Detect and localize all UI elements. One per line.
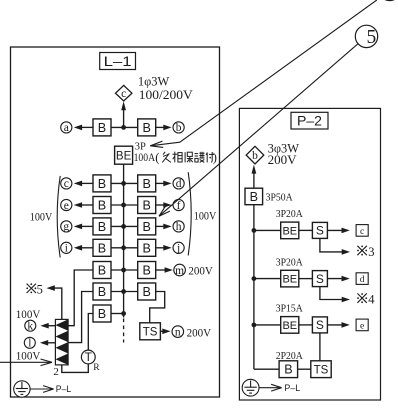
wire B-TS (298, 368, 311, 370)
earth arrow to P-L (P-2) (259, 387, 281, 389)
svg-text:TS: TS (143, 326, 158, 338)
svg-text:): ) (213, 151, 217, 165)
note ※3 (357, 246, 366, 255)
remote-control transformer T(R) (81, 350, 95, 364)
circuit k (25, 320, 36, 331)
arrow to circuit g (80, 225, 93, 227)
svg-text:100/200V: 100/200V (139, 87, 194, 102)
wire branch c (254, 229, 281, 231)
kanji 相 (174, 152, 176, 163)
breaker B row7-right (138, 283, 156, 300)
relay triangle 4 (55, 354, 68, 365)
wire BE-S (299, 229, 313, 231)
circuit j (173, 242, 184, 253)
leader line from 5 to branch breaker (159, 44, 358, 217)
branch wire to note 4 (320, 287, 346, 300)
svg-text:200V: 200V (187, 325, 212, 339)
relay triangle 1 (55, 319, 68, 330)
svg-text:B: B (142, 121, 150, 135)
source diamond c (1φ3W 100/200V feeder) (116, 85, 132, 101)
source diamond b (3φ3W 200V feeder) (246, 146, 264, 164)
junction row1 (121, 125, 126, 130)
wire BE-S (299, 324, 313, 326)
svg-text:3P20A: 3P20A (276, 256, 303, 268)
svg-text:B: B (98, 121, 106, 135)
svg-text:BE: BE (116, 150, 132, 162)
breaker B right of h row (138, 218, 156, 235)
wire row ij (111, 247, 138, 249)
left group bracket (57, 176, 60, 258)
earth arrow to P-L (30, 388, 52, 390)
svg-text:f: f (177, 200, 181, 212)
svg-text:n: n (175, 326, 181, 338)
svg-text:B: B (142, 285, 150, 299)
arrow to circuit e (80, 204, 93, 206)
outlet box d (356, 273, 368, 285)
svg-text:100V: 100V (194, 208, 217, 222)
breaker B row7-left (93, 283, 111, 300)
circuit l (24, 337, 35, 348)
panel label L-1 (100, 53, 136, 70)
arrow to circuit m (156, 269, 167, 271)
wire row6-left down to relay bank (68, 270, 93, 326)
wire row8-left down through transformer (88, 314, 93, 351)
svg-text:B: B (284, 363, 292, 377)
svg-text:T: T (85, 350, 93, 364)
circuit n (172, 326, 184, 338)
main bus (P-2) (253, 205, 255, 370)
svg-text:b: b (176, 122, 182, 134)
svg-text:d: d (176, 178, 182, 190)
wire transformer to relay bank bottom (62, 364, 89, 373)
wire: bus to diamond with up arrow (123, 107, 125, 128)
leader line to BE 3P (150, 0, 376, 146)
wire row8 to bus (111, 313, 124, 315)
junction row ef (121, 203, 126, 208)
svg-text:BE: BE (282, 320, 297, 332)
kanji 保 (184, 152, 186, 162)
callout circle 5 (355, 25, 377, 47)
breaker B left of g row (93, 218, 111, 235)
breaker B right of f row (138, 197, 156, 214)
breaker B row8 (93, 305, 111, 322)
svg-text:e: e (64, 200, 69, 212)
earth electrode (P-2) (242, 379, 259, 396)
svg-text:L–1: L–1 (104, 53, 132, 69)
breaker BE branch e (281, 317, 299, 334)
wire row6 (111, 269, 138, 271)
svg-text:B: B (98, 199, 106, 213)
cut-off callout circle top right (379, 0, 398, 1)
kanji 付 (206, 152, 208, 162)
svg-text:e: e (360, 321, 364, 331)
svg-text:5: 5 (37, 282, 43, 296)
breaker B 3P50A main (245, 188, 263, 205)
wire row7-right to TS (150, 292, 165, 323)
svg-text:c: c (121, 88, 126, 100)
svg-text:3P20A: 3P20A (276, 208, 303, 220)
junction row ij (121, 245, 126, 250)
svg-text:P–2: P–2 (297, 113, 322, 129)
svg-text:g: g (63, 221, 69, 233)
wire row1 (111, 126, 138, 128)
svg-text:3P15A: 3P15A (276, 303, 303, 315)
svg-text:B: B (250, 190, 258, 204)
wire relay bank top to note 5 arrow (52, 288, 62, 319)
arrow to circuit a (80, 126, 93, 128)
panel label P-2 (291, 112, 328, 129)
svg-text:BE: BE (282, 225, 297, 237)
switch S branch c (312, 222, 327, 238)
arrow to outlet d (327, 278, 343, 280)
svg-text:h: h (176, 221, 182, 233)
svg-text:100V: 100V (30, 209, 53, 223)
wire S(e) down to TS (319, 333, 321, 361)
switch S branch d (312, 271, 327, 287)
arrow to circuit f (156, 204, 166, 206)
panel P-2 outline (239, 108, 380, 400)
circuit f (173, 199, 184, 210)
arrow to circuit b (156, 126, 166, 128)
svg-text:B: B (98, 177, 106, 191)
remote control relay bank (55, 319, 68, 365)
svg-text:k: k (27, 321, 33, 333)
breaker B right of d row (138, 175, 156, 192)
junction branch c (252, 228, 257, 233)
junction branch e (252, 323, 257, 328)
svg-text:i: i (65, 243, 68, 255)
outlet box c (356, 225, 368, 237)
circuit i (61, 242, 72, 253)
svg-text:200V: 200V (188, 264, 213, 278)
junction row cd (121, 181, 126, 186)
arrow to circuit h (156, 225, 166, 227)
wire branch d (254, 278, 281, 280)
svg-text:B: B (98, 285, 106, 299)
arrow to circuit i (80, 247, 93, 249)
svg-text:j: j (176, 243, 180, 255)
svg-text:B: B (142, 220, 150, 234)
arrow to circuit l (44, 342, 56, 344)
svg-text:B: B (98, 307, 106, 321)
circuit h (173, 221, 184, 232)
breaker B row1-right (138, 119, 156, 136)
wire row ef (111, 204, 138, 206)
svg-text:b: b (252, 150, 258, 162)
svg-text:5: 5 (367, 27, 377, 48)
relay triangle 2 (55, 331, 68, 342)
breaker B right of j row (138, 239, 156, 256)
svg-text:B: B (98, 241, 106, 255)
circuit a (61, 122, 72, 133)
outlet box e (356, 319, 368, 331)
svg-text:100V: 100V (16, 307, 41, 321)
breaker BE branch d (281, 270, 299, 287)
incoming control line with open arrow (0, 361, 51, 363)
junction row6 (121, 268, 126, 273)
svg-text:B: B (142, 264, 150, 278)
svg-text:3: 3 (368, 245, 374, 259)
svg-text:100A: 100A (134, 150, 156, 164)
svg-text:3P50A: 3P50A (266, 191, 293, 203)
arrow to outlet e (327, 324, 343, 326)
circuit c (61, 178, 72, 189)
kanji 護 (195, 153, 199, 155)
svg-text:B: B (98, 264, 106, 278)
breaker BE 3P 100A main (115, 146, 133, 164)
svg-text:P–L: P–L (56, 384, 71, 395)
main bus (L-1) (123, 146, 125, 317)
svg-text:S: S (316, 272, 324, 286)
junction branch d (252, 276, 257, 281)
breaker B left of i row (93, 239, 111, 256)
svg-text:4: 4 (368, 292, 375, 306)
circuit g (61, 221, 72, 232)
svg-text:2P20A: 2P20A (276, 350, 303, 362)
breaker B row1-left (93, 119, 111, 136)
kanji 欠 (163, 152, 165, 155)
wire row cd (111, 182, 138, 184)
breaker B left of c row (93, 175, 111, 192)
arrow to circuit c (80, 182, 93, 184)
svg-text:d: d (360, 275, 365, 285)
breaker B row6-right (138, 262, 156, 279)
breaker B 2P20A (279, 361, 298, 378)
svg-text:S: S (316, 318, 324, 332)
svg-text:B: B (142, 177, 150, 191)
svg-text:c: c (64, 178, 69, 190)
arrow to circuit k (44, 325, 55, 327)
svg-text:TS: TS (314, 364, 329, 376)
svg-text:B: B (98, 220, 106, 234)
arrow to circuit n (160, 330, 164, 332)
earth electrode (L-1) (14, 381, 30, 397)
circuit b (173, 122, 184, 133)
arrow to circuit d (156, 182, 166, 184)
timer switch TS (L-1) (140, 323, 161, 340)
svg-text:(: ( (155, 151, 159, 165)
dashed bus continuation (123, 319, 125, 343)
panel L-1 outline (11, 47, 220, 397)
wire row7-left down to relay bank (68, 292, 93, 343)
right group bracket (188, 172, 191, 255)
wire row gh (111, 225, 138, 227)
junction row7 (121, 289, 126, 294)
svg-text:B: B (142, 199, 150, 213)
switch S branch e (312, 317, 327, 333)
svg-text:c: c (360, 227, 364, 237)
arrow to circuit j (156, 247, 166, 249)
svg-text:P–L: P–L (284, 383, 300, 394)
note ※4 (357, 293, 366, 302)
wire BE-S (299, 278, 313, 280)
svg-text:a: a (64, 122, 69, 134)
branch wire to note 3 (320, 239, 346, 252)
breaker B row6-left (93, 262, 111, 279)
wire row7 (111, 291, 138, 293)
svg-text:2: 2 (53, 366, 59, 378)
svg-text:R: R (93, 363, 100, 373)
breaker BE branch c (281, 222, 299, 239)
circuit d (173, 178, 184, 189)
circuit e (61, 199, 72, 210)
circuit m (174, 264, 186, 276)
wire branch e (254, 324, 281, 326)
arrow to outlet c (327, 229, 343, 231)
breaker B left of e row (93, 197, 111, 214)
relay triangle 3 (55, 342, 68, 353)
svg-text:BE: BE (282, 274, 297, 286)
note ※5 (27, 284, 36, 293)
svg-text:200V: 200V (268, 152, 298, 167)
junction row gh (121, 224, 126, 229)
svg-text:B: B (142, 241, 150, 255)
timer switch TS (P-2) (311, 361, 331, 378)
svg-text:m: m (175, 265, 184, 277)
svg-text:S: S (316, 224, 324, 238)
svg-text:100V: 100V (16, 348, 41, 362)
wire: B to diamond with up arrow (253, 170, 255, 188)
junction row8 (121, 311, 126, 316)
